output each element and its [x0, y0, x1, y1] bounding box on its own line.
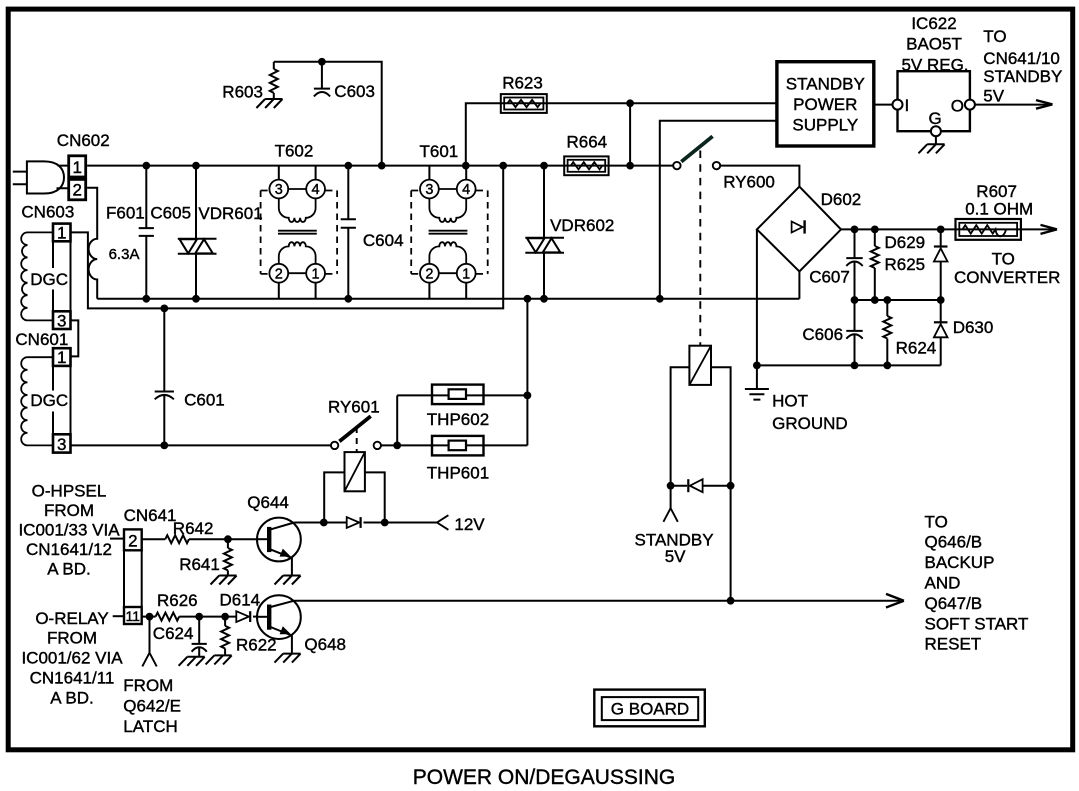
svg-text:DGC: DGC [30, 270, 68, 289]
wire TO CONVERTER arrow [1041, 225, 1058, 234]
svg-text:11: 11 [126, 608, 141, 624]
svg-text:STANDBY: STANDBY [983, 67, 1062, 86]
wire RY601 to THP [381, 444, 397, 446]
wire bus2 (lower AC line) [97, 298, 799, 300]
resistor R625 [874, 229, 876, 246]
svg-text:GROUND: GROUND [772, 414, 848, 433]
svg-text:TO: TO [925, 512, 948, 531]
wire SPS to IC622 [874, 104, 894, 106]
svg-text:5V: 5V [665, 547, 686, 566]
junction dots [142, 162, 150, 170]
svg-text:BAO5T: BAO5T [906, 35, 962, 54]
svg-text:AND: AND [925, 574, 961, 593]
svg-text:C603: C603 [334, 82, 375, 101]
svg-text:TO: TO [983, 27, 1006, 46]
svg-text:RY600: RY600 [723, 172, 775, 191]
svg-text:CONVERTER: CONVERTER [954, 268, 1060, 287]
capacitor C604 [347, 166, 349, 220]
wire bus1 (top AC line) [87, 165, 673, 167]
svg-text:3: 3 [57, 311, 66, 330]
svg-text:RY601: RY601 [328, 398, 380, 417]
svg-text:D602: D602 [821, 190, 862, 209]
svg-text:C605: C605 [150, 203, 191, 222]
relay contact RY601 right [374, 442, 381, 449]
bridge rectifier D602 [757, 187, 841, 272]
wire R603/C603 branch [274, 62, 382, 166]
capacitor C605 [145, 166, 147, 229]
relay contact RY601 left [331, 442, 338, 449]
svg-text:Q642/E: Q642/E [123, 697, 181, 716]
svg-text:G BOARD: G BOARD [611, 699, 689, 718]
svg-text:5V: 5V [983, 87, 1004, 106]
svg-text:DGC: DGC [30, 391, 68, 410]
svg-text:HOT: HOT [772, 391, 808, 410]
svg-text:6.3A: 6.3A [109, 246, 140, 263]
svg-text:SUPPLY: SUPPLY [792, 116, 858, 135]
pin G [931, 126, 941, 136]
svg-text:C607: C607 [809, 267, 850, 286]
wire from CN602 pin2 through fuse to bus2 [87, 188, 97, 299]
standby power supply block [777, 62, 874, 146]
wire bridge left vertex to hot ground [756, 229, 758, 365]
wire THP riser to bus2 [526, 299, 528, 446]
svg-text:O-HPSEL: O-HPSEL [32, 482, 107, 501]
svg-text:POWER: POWER [793, 95, 857, 114]
svg-text:LATCH: LATCH [123, 717, 177, 736]
svg-text:2: 2 [128, 532, 137, 551]
diode D629 [940, 229, 942, 246]
svg-text:2: 2 [275, 266, 283, 282]
wire standby supply lower input [660, 121, 777, 299]
svg-text:T602: T602 [275, 142, 314, 161]
svg-text:IC001/62 VIA: IC001/62 VIA [21, 649, 123, 668]
svg-text:R607: R607 [976, 182, 1017, 201]
wire CN603/3 to CN601/1 [71, 320, 79, 356]
svg-text:D614: D614 [220, 590, 261, 609]
wire riser at 630 [629, 103, 631, 165]
svg-text:R642: R642 [173, 519, 214, 538]
relay coil RY600 [689, 346, 711, 385]
svg-text:STANDBY: STANDBY [786, 74, 865, 93]
svg-text:A BD.: A BD. [50, 688, 93, 707]
pin I [893, 100, 903, 110]
ground (C624) [179, 657, 205, 666]
12V input chevron [437, 515, 448, 530]
svg-text:FROM: FROM [47, 629, 97, 648]
svg-text:R624: R624 [896, 338, 937, 357]
svg-text:TO: TO [992, 249, 1015, 268]
svg-text:CN601: CN601 [15, 330, 68, 349]
diode (standby feed) [671, 485, 688, 487]
STANDBY 5V input [670, 486, 672, 509]
svg-text:C624: C624 [153, 624, 194, 643]
relay arm RY600 [681, 136, 712, 161]
ground (IC622) [935, 135, 937, 143]
svg-text:CN1641/12: CN1641/12 [26, 540, 112, 559]
svg-text:D630: D630 [953, 318, 994, 337]
wire mid DC bus [855, 299, 941, 301]
thermal protector THP601 [432, 436, 484, 456]
wire to R623 [466, 103, 777, 165]
thermal protector THP602 [432, 385, 484, 405]
varistor VDR601 [195, 166, 197, 239]
svg-text:1: 1 [57, 348, 66, 367]
svg-text:O: O [951, 96, 964, 115]
svg-text:0.1 OHM: 0.1 OHM [965, 200, 1033, 219]
svg-text:R664: R664 [567, 133, 608, 152]
svg-text:F601: F601 [106, 203, 145, 222]
ground (R641) [211, 576, 237, 585]
svg-text:R641: R641 [179, 555, 220, 574]
svg-text:R603: R603 [222, 82, 263, 101]
G BOARD stamp [594, 690, 705, 727]
svg-text:C604: C604 [363, 231, 404, 250]
svg-text:2: 2 [425, 266, 433, 282]
svg-text:CN1641/11: CN1641/11 [30, 669, 115, 688]
svg-text:C606: C606 [802, 325, 843, 344]
resistor R603 [273, 62, 275, 69]
svg-text:1: 1 [462, 266, 470, 282]
svg-text:1: 1 [72, 158, 81, 177]
svg-text:3: 3 [275, 182, 283, 198]
wire bridge output [841, 228, 1054, 230]
svg-text:VDR602: VDR602 [550, 216, 614, 235]
wire Q648 collector line [294, 600, 900, 602]
wire bridge bottom to bus2 [798, 272, 800, 299]
svg-text:Q644: Q644 [247, 493, 289, 512]
varistor VDR602 [543, 166, 545, 238]
ground (R603) [256, 99, 282, 108]
diode D630 [940, 300, 942, 322]
relay contact RY600 left [673, 162, 680, 169]
degauss coil DGC (CN601) [21, 357, 53, 445]
svg-text:T601: T601 [420, 142, 459, 161]
svg-text:A BD.: A BD. [47, 560, 90, 579]
svg-text:Q646/B: Q646/B [925, 533, 983, 552]
resistor R624 [886, 300, 888, 316]
relay arm RY601 [339, 416, 370, 441]
pin O [965, 100, 975, 110]
svg-text:1: 1 [57, 224, 66, 243]
svg-text:I: I [905, 96, 910, 115]
svg-text:R626: R626 [157, 591, 198, 610]
AC plug [13, 161, 69, 193]
svg-text:Q648: Q648 [304, 635, 346, 654]
capacitor C607 [854, 229, 856, 258]
svg-text:1: 1 [312, 266, 320, 282]
svg-text:THP601: THP601 [427, 464, 489, 483]
svg-text:RESET: RESET [925, 635, 982, 654]
svg-text:VDR601: VDR601 [198, 204, 262, 223]
svg-text:12V: 12V [454, 515, 485, 534]
wire IC622 output arrow [974, 104, 1049, 106]
ground (R622) [206, 655, 232, 664]
svg-text:FROM: FROM [44, 501, 94, 520]
svg-text:R623: R623 [502, 74, 543, 93]
svg-text:4: 4 [312, 182, 320, 198]
svg-text:D629: D629 [885, 233, 926, 252]
dashed link RY600 [699, 151, 701, 346]
hot ground [756, 365, 758, 389]
degauss coil DGC (CN603) [21, 232, 53, 320]
diode (relay RY601 clamp) [347, 517, 360, 528]
svg-text:POWER ON/DEGAUSSING: POWER ON/DEGAUSSING [413, 766, 676, 789]
dashed link RY601 [356, 427, 358, 452]
svg-text:CN641/10: CN641/10 [983, 49, 1060, 68]
svg-text:CN602: CN602 [57, 131, 110, 150]
capacitor C606 [854, 300, 856, 331]
svg-text:3: 3 [425, 182, 433, 198]
wire degauss line [71, 444, 332, 446]
wire dash O-HPSEL [110, 538, 124, 540]
capacitor C601 [163, 308, 165, 391]
wire RY601 coil brackets [324, 472, 385, 522]
svg-text:BACKUP: BACKUP [925, 553, 995, 572]
svg-text:4: 4 [462, 182, 470, 198]
wire bottom DC bus [757, 364, 941, 366]
svg-text:R625: R625 [885, 255, 926, 274]
relay coil RY601 [345, 452, 365, 491]
wire dash O-RELAY [113, 615, 124, 617]
wire RY600 coil left [671, 367, 690, 485]
svg-text:Q647/B: Q647/B [925, 594, 983, 613]
svg-text:IC001/33 VIA: IC001/33 VIA [18, 521, 120, 540]
wire 12V line [294, 522, 347, 524]
svg-text:O-RELAY: O-RELAY [35, 609, 108, 628]
svg-text:THP602: THP602 [427, 410, 489, 429]
svg-text:3: 3 [57, 435, 66, 454]
svg-text:G: G [929, 109, 942, 128]
input FROM Q642/E LATCH [149, 617, 151, 653]
wire RY600 coil right [711, 367, 731, 600]
svg-text:C601: C601 [184, 390, 225, 409]
svg-text:CN603: CN603 [21, 202, 74, 221]
svg-text:SOFT START: SOFT START [925, 614, 1029, 633]
relay contact RY600 right [713, 162, 720, 169]
wire bus3 (degauss feed from CN603/1) [71, 166, 504, 309]
svg-text:2: 2 [72, 181, 81, 200]
capacitor C603 [321, 62, 323, 89]
svg-text:IC622: IC622 [911, 14, 956, 33]
svg-text:FROM: FROM [123, 676, 173, 695]
svg-text:CN641: CN641 [124, 506, 177, 525]
wire RY600 to bridge [720, 166, 799, 187]
